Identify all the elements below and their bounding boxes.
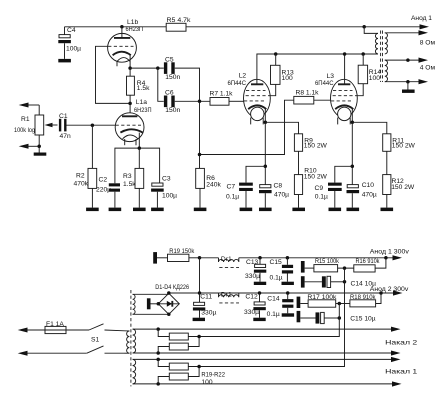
L3 anode lead bbox=[344, 54, 346, 84]
humdinger resistor Rc bbox=[158, 359, 188, 370]
node heater2 bottom bbox=[156, 351, 160, 355]
node C11 bbox=[198, 291, 202, 295]
wire C5 right bbox=[175, 68, 200, 101]
svg-text:47n: 47n bbox=[60, 133, 71, 140]
R1 bottom lead bbox=[38, 135, 40, 153]
wire rail A to rail B bbox=[199, 258, 201, 293]
node divider A bbox=[343, 266, 347, 270]
node L2 cathode bbox=[264, 121, 268, 125]
capacitor C14 10u bbox=[305, 276, 376, 287]
elevation wire B bbox=[199, 304, 339, 337]
svg-text:100k log: 100k log bbox=[14, 127, 35, 134]
capacitor C8 bbox=[259, 183, 289, 208]
HV secondary winding bbox=[133, 294, 136, 314]
R11 to R12 lead bbox=[386, 151, 388, 174]
B+ arrow Anod 1 bbox=[364, 15, 432, 29]
node R13 top bbox=[274, 52, 278, 56]
resistor R2 bbox=[74, 168, 97, 188]
rail B wire bbox=[169, 292, 395, 294]
wire L2 cathode to R9 bbox=[265, 122, 298, 134]
capacitor C2 bbox=[96, 177, 120, 208]
svg-text:F1 1A: F1 1A bbox=[46, 321, 64, 328]
fuse F1 bbox=[45, 321, 66, 333]
node heater1 top bbox=[156, 358, 160, 362]
svg-text:100: 100 bbox=[282, 75, 293, 82]
svg-text:C15 10µ: C15 10µ bbox=[350, 316, 376, 323]
node C15 bbox=[286, 256, 290, 260]
heater2 bottom wire bbox=[133, 352, 395, 354]
svg-text:0.1µ: 0.1µ bbox=[270, 274, 283, 281]
B+ rail top bbox=[65, 26, 167, 28]
svg-text:R7 1.1k: R7 1.1k bbox=[210, 91, 234, 98]
svg-text:150n: 150n bbox=[165, 107, 180, 114]
svg-text:330µ: 330µ bbox=[244, 309, 259, 316]
svg-text:Накал 2: Накал 2 bbox=[385, 339, 417, 346]
choke Dr1 row B bbox=[219, 291, 240, 303]
svg-text:150 2W: 150 2W bbox=[304, 174, 328, 181]
output transformer secondary 2 bbox=[385, 60, 388, 82]
svg-text:L3: L3 bbox=[327, 73, 335, 80]
node bridge top bbox=[167, 291, 171, 295]
resistor R19 bbox=[157, 248, 195, 262]
svg-text:150 2W: 150 2W bbox=[392, 143, 416, 150]
R6 ground lead bbox=[199, 188, 201, 207]
switch S1 pole 2 bbox=[87, 346, 125, 353]
switch S1 pole 1 bbox=[89, 324, 125, 344]
ground C2 bbox=[109, 208, 122, 212]
svg-text:S1: S1 bbox=[91, 337, 99, 344]
resistor R13 bbox=[271, 54, 295, 84]
capacitor C15 bbox=[270, 258, 294, 282]
wire R8 to L3 grid bbox=[314, 99, 331, 101]
svg-text:Анод 1 300v: Анод 1 300v bbox=[370, 248, 410, 255]
node R4 bottom bbox=[128, 102, 132, 106]
Rc Rd join bbox=[188, 367, 199, 377]
cathode bus L1a bbox=[115, 148, 160, 183]
svg-text:L1a: L1a bbox=[136, 99, 147, 106]
ground C13 bbox=[254, 282, 266, 285]
svg-text:Анод 2 300v: Анод 2 300v bbox=[370, 286, 409, 293]
svg-text:470µ: 470µ bbox=[362, 191, 377, 198]
8 Ohm output arrow bbox=[385, 30, 436, 47]
node elevation 1 bbox=[197, 365, 201, 369]
svg-text:C3: C3 bbox=[162, 176, 171, 183]
svg-text:100: 100 bbox=[369, 75, 380, 82]
svg-text:R8 1.1k: R8 1.1k bbox=[296, 90, 320, 97]
ground C7 bbox=[240, 208, 253, 212]
ground R3 bbox=[133, 208, 146, 212]
svg-text:6П44С: 6П44С bbox=[315, 80, 334, 87]
wire input to R1 bbox=[38, 105, 40, 115]
resistor R16 bbox=[354, 258, 380, 272]
ground C4 bbox=[58, 59, 71, 63]
wire L2 cathode down bbox=[264, 122, 266, 185]
svg-text:C7: C7 bbox=[227, 184, 236, 191]
svg-text:R19-R22: R19-R22 bbox=[201, 372, 225, 379]
resistor R12 bbox=[383, 175, 415, 195]
svg-text:Dr1: Dr1 bbox=[221, 291, 232, 298]
node R6 bbox=[198, 153, 202, 157]
node L1b cathode bbox=[128, 66, 132, 70]
svg-text:4 Ом: 4 Ом bbox=[420, 64, 436, 71]
primary bottom lead bbox=[125, 352, 130, 354]
node elevation A bbox=[343, 280, 347, 284]
terminal bar A2 bbox=[301, 276, 305, 287]
svg-text:Анод 1: Анод 1 bbox=[411, 15, 432, 22]
capacitor C5 bbox=[164, 56, 181, 81]
heater1 bottom wire bbox=[133, 383, 396, 385]
ground C11 bbox=[193, 318, 205, 321]
input arrow bottom bbox=[19, 144, 40, 149]
node R7 bbox=[198, 100, 202, 104]
node L3 anode bbox=[343, 52, 347, 56]
ground C12 bbox=[253, 318, 265, 321]
node C13 bbox=[258, 256, 262, 260]
HV winding bottom lead bbox=[133, 313, 169, 315]
node L1b anode rail bbox=[120, 25, 124, 29]
ground C9 bbox=[329, 208, 342, 212]
HV winding top lead bbox=[133, 293, 169, 295]
R13 to L2 screen bbox=[268, 84, 276, 95]
node R14 top bbox=[361, 52, 365, 56]
wire C6 right bbox=[175, 100, 210, 102]
svg-text:C12: C12 bbox=[245, 294, 258, 301]
ground C8 bbox=[259, 208, 272, 212]
resistor R6 bbox=[196, 168, 222, 188]
wire R18 to rail B bbox=[376, 293, 381, 304]
humdinger resistor Rb bbox=[158, 343, 188, 353]
svg-text:C4: C4 bbox=[67, 27, 76, 34]
power transformer primary bbox=[127, 331, 130, 353]
resistor R3 bbox=[123, 148, 144, 208]
terminal bar R19 bbox=[153, 252, 157, 264]
capacitor C6 bbox=[164, 90, 181, 115]
R9 to R10 lead bbox=[298, 151, 300, 174]
capacitor C1 bbox=[59, 113, 71, 140]
svg-text:100: 100 bbox=[201, 379, 212, 386]
svg-text:Dr1: Dr1 bbox=[221, 256, 232, 263]
wire to C7 bbox=[246, 166, 265, 182]
terminal bar A1 bbox=[301, 261, 305, 273]
node C9 branch bbox=[351, 165, 355, 169]
wire R19 to rail A bbox=[189, 257, 200, 259]
R2 ground lead bbox=[91, 188, 93, 207]
node heater1 bottom bbox=[156, 382, 160, 386]
node C14 bbox=[286, 291, 290, 295]
svg-text:1.5k: 1.5k bbox=[123, 181, 136, 188]
svg-text:C1: C1 bbox=[59, 113, 68, 120]
node R18 rail bbox=[379, 291, 383, 295]
capacitor C4 bbox=[58, 27, 81, 59]
secondary bottom arrow bbox=[385, 79, 428, 84]
svg-text:R16 910k: R16 910k bbox=[356, 258, 381, 265]
pentode L2 bbox=[228, 73, 271, 125]
bridge rectifier D1-D4 bbox=[155, 284, 189, 314]
pentode L3 bbox=[315, 73, 357, 125]
rail A wire bbox=[239, 257, 394, 259]
wire R16 to rail A bbox=[375, 258, 386, 268]
output transformer secondary 1 bbox=[385, 33, 388, 54]
svg-text:R1: R1 bbox=[21, 116, 30, 123]
wire R7 to L2 grid bbox=[229, 100, 244, 102]
wire R5 to transformer bbox=[186, 26, 364, 28]
svg-text:6Н23П: 6Н23П bbox=[134, 107, 152, 114]
heater winding 1 bbox=[133, 359, 136, 383]
L2 anode lead bbox=[257, 54, 378, 84]
node C12 bbox=[258, 291, 262, 295]
svg-text:240k: 240k bbox=[206, 182, 221, 189]
resistor R8 bbox=[294, 90, 319, 104]
resistor R4 bbox=[127, 68, 151, 103]
wire L3 cathode to R11 bbox=[352, 122, 387, 134]
humdinger resistor Ra bbox=[158, 329, 188, 340]
svg-text:C14: C14 bbox=[267, 296, 280, 303]
resistor R9 bbox=[294, 134, 327, 152]
ground C10 bbox=[347, 208, 360, 212]
svg-text:150 2W: 150 2W bbox=[304, 143, 328, 150]
resistor R14 bbox=[358, 54, 381, 84]
wire R17 to R18 bbox=[336, 303, 350, 305]
capacitor C13 bbox=[245, 258, 266, 282]
arrow heater1 bottom bbox=[392, 381, 402, 386]
node R16 rail bbox=[384, 256, 388, 260]
ground R1 bbox=[34, 153, 47, 156]
L1b grid wire bbox=[96, 46, 131, 103]
ground R12 bbox=[381, 208, 394, 212]
R12 ground lead bbox=[386, 195, 388, 208]
node L1a cathode bbox=[138, 146, 142, 150]
svg-text:R2: R2 bbox=[76, 173, 85, 180]
wire to C9 bbox=[335, 166, 353, 182]
heater1 top wire bbox=[133, 358, 395, 360]
capacitor C3 bbox=[151, 176, 177, 208]
node bridge left bbox=[157, 302, 161, 306]
arrow heater2 bottom bbox=[391, 351, 401, 356]
svg-text:470µ: 470µ bbox=[274, 191, 289, 198]
power transformer core bbox=[130, 290, 132, 386]
ground C14 bbox=[282, 313, 294, 316]
svg-text:0.1µ: 0.1µ bbox=[267, 311, 280, 318]
svg-text:D1-D4 КД226: D1-D4 КД226 bbox=[155, 284, 189, 291]
secondary ground bbox=[402, 82, 415, 93]
capacitor C14 0.1u bbox=[267, 293, 294, 318]
primary top lead bbox=[125, 330, 130, 332]
node heater2 top bbox=[156, 327, 160, 331]
svg-text:150n: 150n bbox=[165, 74, 180, 81]
resistor R5 bbox=[166, 17, 191, 31]
node elevation 2 bbox=[197, 335, 201, 339]
ground R6 bbox=[194, 208, 207, 212]
transformer primary lead bbox=[364, 27, 378, 34]
svg-text:Накал 1: Накал 1 bbox=[385, 369, 417, 376]
wire node to R2 bbox=[91, 125, 93, 168]
node bridge bottom bbox=[167, 313, 171, 317]
terminal bar B2 bbox=[297, 311, 301, 322]
R1 wiper arrow bbox=[45, 123, 58, 127]
resistor R7 bbox=[210, 91, 234, 106]
input arrow top bbox=[19, 103, 40, 108]
resistor R10 bbox=[294, 168, 327, 195]
svg-text:R19 150k: R19 150k bbox=[169, 248, 195, 255]
svg-text:R15 100k: R15 100k bbox=[315, 258, 340, 265]
svg-text:150 2W: 150 2W bbox=[391, 184, 415, 191]
svg-text:R3: R3 bbox=[123, 173, 132, 180]
svg-text:C13: C13 bbox=[246, 259, 259, 266]
svg-text:330µ: 330µ bbox=[201, 310, 216, 317]
svg-text:L1b: L1b bbox=[127, 19, 138, 26]
svg-text:C15: C15 bbox=[270, 259, 283, 266]
arrow heater2 top bbox=[391, 327, 401, 332]
R10 ground lead bbox=[298, 195, 300, 208]
label R19-R22 bbox=[201, 372, 225, 387]
svg-text:C6: C6 bbox=[165, 90, 174, 97]
terminal bar bridge bbox=[147, 298, 158, 309]
svg-text:C9: C9 bbox=[315, 185, 324, 192]
mains arrow bottom bbox=[18, 351, 87, 356]
capacitor C9 bbox=[315, 183, 342, 208]
svg-text:330µ: 330µ bbox=[245, 273, 260, 280]
arrow Anod 2 300v bbox=[370, 286, 409, 296]
heater2 top wire bbox=[133, 328, 395, 330]
svg-text:L2: L2 bbox=[239, 73, 247, 80]
svg-text:100µ: 100µ bbox=[162, 192, 177, 199]
output transformer core bbox=[381, 31, 383, 83]
node C7 branch bbox=[264, 165, 268, 169]
svg-text:0.1µ: 0.1µ bbox=[226, 194, 239, 201]
svg-text:C8: C8 bbox=[274, 183, 283, 190]
wire R15 to R16 bbox=[338, 267, 354, 269]
ground C15 bbox=[282, 282, 294, 285]
capacitor C10 bbox=[347, 182, 377, 208]
node rail A start bbox=[198, 256, 202, 260]
wire cathode to C5 bbox=[130, 67, 164, 69]
node elevation B bbox=[338, 316, 342, 320]
Ra Rb join bbox=[188, 337, 199, 347]
svg-text:C11: C11 bbox=[200, 294, 212, 301]
svg-text:6П44С: 6П44С bbox=[228, 80, 247, 87]
humdinger resistor Rd bbox=[158, 373, 188, 384]
node R1 bottom bbox=[37, 145, 41, 149]
ground C3 bbox=[151, 208, 164, 212]
svg-text:0.1µ: 0.1µ bbox=[315, 194, 328, 201]
node primary top bbox=[362, 25, 366, 29]
elevation wire A bbox=[199, 268, 344, 366]
svg-text:C5: C5 bbox=[165, 56, 174, 63]
svg-text:6Н23П: 6Н23П bbox=[126, 26, 144, 33]
svg-text:R18 910k: R18 910k bbox=[350, 294, 376, 301]
resistor R18 bbox=[350, 294, 376, 307]
node C5 branch bbox=[156, 66, 160, 70]
resistor R11 bbox=[383, 134, 416, 152]
capacitor C11 bbox=[193, 293, 217, 318]
output transformer primary bbox=[375, 33, 378, 53]
choke Dr1 row A bbox=[200, 256, 240, 268]
terminal bar B1 bbox=[297, 297, 301, 308]
svg-text:470k: 470k bbox=[74, 180, 89, 187]
R14 to L3 screen bbox=[355, 84, 363, 96]
resistor R15 bbox=[305, 258, 340, 272]
svg-text:R5 4.7k: R5 4.7k bbox=[167, 17, 192, 24]
capacitor C15 10u bbox=[300, 312, 375, 323]
potentiometer R1 bbox=[14, 115, 44, 135]
resistor R17 bbox=[300, 294, 337, 307]
wire L3 cathode down bbox=[351, 122, 353, 185]
svg-text:8 Ом: 8 Ом bbox=[420, 40, 436, 47]
ground R10 bbox=[292, 208, 305, 212]
arrow Anod 1 300v bbox=[370, 248, 410, 260]
heater winding 2 bbox=[133, 329, 136, 353]
wire branch to C6 bbox=[158, 68, 164, 101]
4 Ohm tap arrow bbox=[385, 58, 436, 72]
L1a anode lead bbox=[129, 103, 131, 116]
svg-text:C10: C10 bbox=[362, 182, 375, 189]
arrow heater1 top bbox=[391, 357, 401, 362]
svg-text:220µ: 220µ bbox=[96, 187, 111, 194]
svg-text:R17 100k: R17 100k bbox=[307, 294, 337, 301]
capacitor C7 bbox=[226, 183, 253, 208]
svg-text:C2: C2 bbox=[99, 177, 108, 184]
wire C1 to grid L1a bbox=[67, 124, 116, 126]
node L3 cathode bbox=[351, 121, 355, 125]
node grid L1a bbox=[91, 123, 95, 127]
wire fuse to switch bbox=[66, 329, 89, 331]
svg-text:1.5k: 1.5k bbox=[137, 85, 150, 92]
wire node to R6 and R8 bbox=[200, 100, 294, 168]
triode L1b bbox=[108, 19, 144, 68]
node divider B bbox=[338, 302, 342, 306]
svg-text:100µ: 100µ bbox=[66, 46, 81, 53]
capacitor C12 bbox=[244, 293, 266, 318]
mains arrow top bbox=[18, 328, 45, 333]
triode L1a bbox=[115, 99, 151, 148]
ground R2 bbox=[86, 208, 99, 212]
